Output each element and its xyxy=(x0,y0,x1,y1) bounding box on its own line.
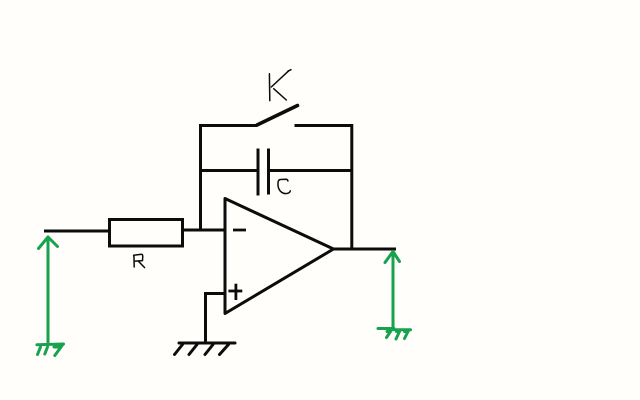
probe arrow output (green) xyxy=(385,252,400,330)
capacitor C plates xyxy=(258,149,269,196)
wire: feedback right vertical xyxy=(350,124,353,249)
ground output (green) xyxy=(378,329,411,340)
op-amp non-inverting input marker (+) xyxy=(228,284,242,300)
label K xyxy=(269,70,291,101)
wire: switch branch right segment xyxy=(295,124,354,127)
ground input (green) xyxy=(37,344,64,356)
wire: input from left terminal to resistor R xyxy=(44,230,110,233)
wire: op-amp output xyxy=(333,248,396,251)
op-amp inverting input marker (-) xyxy=(233,229,246,232)
switch K blade xyxy=(257,106,298,126)
resistor R body xyxy=(110,220,183,247)
wire: capacitor branch left segment xyxy=(199,169,257,172)
wire: switch branch left segment xyxy=(199,124,257,127)
wire: resistor to inverting input node xyxy=(183,229,225,232)
label R xyxy=(134,254,145,267)
wire: non-inverting input to ground xyxy=(206,292,226,343)
label C xyxy=(278,179,290,193)
wire: feedback left vertical riser xyxy=(199,124,202,231)
wire: capacitor branch right segment xyxy=(270,169,353,172)
probe arrow input (green) xyxy=(39,237,58,342)
op-amp U1 triangle xyxy=(225,199,334,314)
ground (black) below op-amp xyxy=(175,343,236,355)
